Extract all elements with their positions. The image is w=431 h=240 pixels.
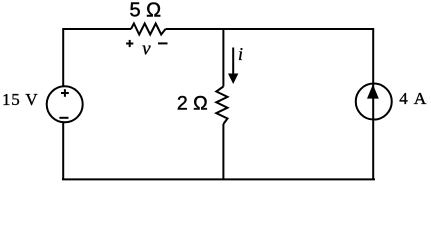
current source arrow head [367, 84, 379, 98]
svg-text:5 Ω: 5 Ω [129, 0, 161, 22]
svg-text:4A: 4A [399, 89, 427, 108]
wire bottom [62, 178, 375, 180]
wire right branch [372, 28, 374, 180]
wire top-right segment [166, 28, 375, 30]
wire top-left segment [63, 28, 131, 30]
plus sign of v polarity label [126, 43, 133, 45]
voltage source V1 circle [47, 86, 83, 122]
resistor R2 2-ohm zigzag [216, 87, 227, 125]
plus sign inside voltage source [61, 92, 69, 94]
resistor R1 5-ohm zigzag [131, 24, 166, 35]
minus sign of v polarity label [158, 42, 168, 44]
wire middle lower [222, 124, 224, 180]
svg-text:2 Ω: 2 Ω [177, 93, 208, 115]
wire middle upper [222, 28, 224, 87]
current arrow i head [228, 74, 238, 85]
current arrow i shaft [232, 48, 234, 76]
minus sign inside voltage source [59, 117, 68, 119]
svg-text:15 V: 15 V [2, 90, 38, 109]
wire left lower [62, 121, 64, 180]
svg-text:v: v [142, 39, 151, 60]
wire left upper [62, 28, 64, 87]
svg-text:i: i [238, 44, 243, 64]
current source I1 circle [356, 84, 392, 120]
